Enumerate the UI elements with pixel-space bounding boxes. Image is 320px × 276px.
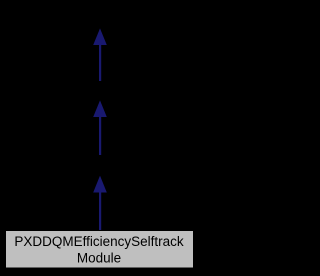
- node box PXDDQMEfficiencySelftrackModule: [6, 231, 194, 269]
- inheritance arrow 2 (middle): [93, 100, 107, 155]
- svg-text:Module: Module: [77, 251, 121, 266]
- inheritance arrow 3 (bottom): [93, 176, 107, 230]
- inheritance arrow 1 (top): [93, 28, 107, 81]
- svg-text:PXDDQMEfficiencySelftrack: PXDDQMEfficiencySelftrack: [14, 234, 184, 249]
